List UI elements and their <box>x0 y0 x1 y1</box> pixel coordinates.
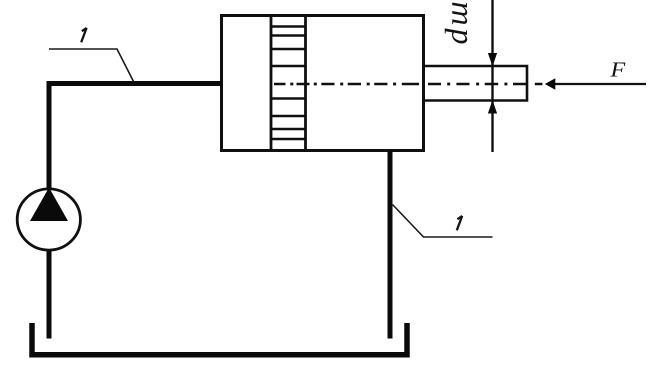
svg-text:F: F <box>609 58 626 82</box>
svg-text:d ш: d ш <box>438 2 474 45</box>
